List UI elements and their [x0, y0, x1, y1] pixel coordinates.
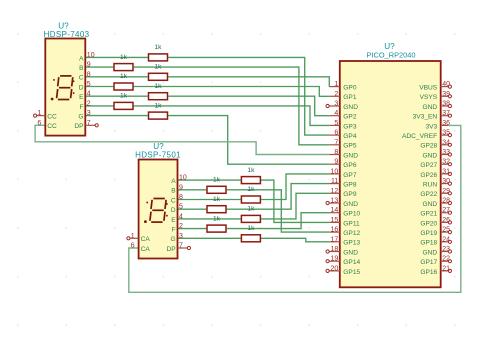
- svg-text:DP: DP: [74, 123, 84, 130]
- wire display1 E pin to resistor: [85, 95, 148, 97]
- svg-text:CA: CA: [141, 246, 151, 253]
- svg-text:GP6: GP6: [343, 162, 357, 169]
- svg-text:GP10: GP10: [343, 211, 360, 218]
- Pico pin 12 GP9 stub: [329, 192, 340, 194]
- wire display1 G resistor to Pico GP pin 9: [168, 116, 329, 165]
- svg-text:18: 18: [331, 246, 339, 253]
- Pico pin 1 GP0 stub: [329, 86, 340, 88]
- no-connect circle Pico pin 24: [448, 240, 451, 243]
- svg-text:1k: 1k: [120, 93, 128, 100]
- svg-text:40: 40: [442, 81, 450, 88]
- svg-text:ADC_VREF: ADC_VREF: [402, 133, 437, 140]
- svg-text:HDSP-7403: HDSP-7403: [44, 30, 90, 39]
- Pico pin 30 RUN stub unconnected: [441, 183, 449, 185]
- svg-text:10: 10: [87, 52, 95, 59]
- svg-text:10: 10: [179, 175, 187, 182]
- svg-text:8: 8: [334, 149, 338, 156]
- svg-text:39: 39: [442, 91, 450, 98]
- no-connect circle Pico pin 3: [326, 104, 329, 107]
- svg-text:6: 6: [334, 130, 338, 137]
- no-connect circle Pico pin 13: [326, 201, 329, 204]
- svg-text:1k: 1k: [247, 167, 255, 174]
- Pico pin 23 GND stub unconnected: [441, 251, 449, 253]
- resistor 1k (display1 segment G): [149, 112, 168, 119]
- svg-text:26: 26: [442, 217, 450, 224]
- svg-text:GND: GND: [343, 104, 358, 111]
- wire display1 B resistor to Pico GP pin 7: [134, 67, 330, 145]
- 7-segment digit graphic HDSP-7501: [150, 199, 166, 223]
- Pico pin 10 GP7 stub: [329, 173, 340, 175]
- svg-text:1k: 1k: [247, 186, 255, 193]
- svg-text:GP17: GP17: [420, 259, 437, 266]
- svg-text:24: 24: [442, 236, 450, 243]
- svg-text:GND: GND: [423, 201, 438, 208]
- Pico pin 24 GP18 stub unconnected: [441, 241, 449, 243]
- svg-text:2: 2: [334, 91, 338, 98]
- svg-text:12: 12: [331, 188, 339, 195]
- Pico pin 15 GP11 stub: [329, 221, 340, 223]
- svg-text:GND: GND: [343, 201, 358, 208]
- svg-text:GND: GND: [423, 249, 438, 256]
- svg-text:36: 36: [442, 120, 450, 127]
- Pico pin 29 GP22 stub unconnected: [441, 192, 449, 194]
- svg-text:F: F: [172, 227, 176, 234]
- svg-text:17: 17: [331, 236, 339, 243]
- wire display1 D resistor to Pico GP pin 2: [134, 87, 330, 97]
- svg-text:1: 1: [131, 233, 135, 240]
- Pico pin 16 GP12 stub: [329, 231, 340, 233]
- wire display2 E pin to resistor: [178, 218, 241, 220]
- no-connect circle Pico pin 20: [326, 269, 329, 272]
- Pico pin 20 GP15 stub unconnected: [329, 270, 340, 272]
- svg-text:10: 10: [331, 168, 339, 175]
- wire display2 G resistor to Pico GP pin 17: [261, 238, 329, 242]
- Pico pin 34 GP28 stub unconnected: [441, 144, 449, 146]
- no-connect circle Pico pin 30: [448, 182, 451, 185]
- svg-text:GND: GND: [423, 104, 438, 111]
- svg-text:B: B: [171, 188, 176, 195]
- svg-text:8: 8: [87, 71, 91, 78]
- svg-text:C: C: [79, 75, 84, 82]
- no-connect circle Pico pin 34: [448, 143, 451, 146]
- wire display2 C resistor to Pico GP pin 10: [261, 174, 329, 200]
- svg-text:C: C: [171, 197, 176, 204]
- no-connect circle pin 7 U? (display 2): [187, 246, 190, 249]
- svg-text:GP18: GP18: [420, 240, 437, 247]
- wire GND net: display1 CC to Pico pin 8 GND: [35, 125, 329, 154]
- no-connect circle Pico pin 28: [448, 201, 451, 204]
- pin DP (7) U? (display 1) unconnected: [85, 124, 95, 126]
- Pico pin 21 GP16 stub unconnected: [441, 270, 449, 272]
- svg-text:GP27: GP27: [420, 162, 437, 169]
- resistor 1k (display2 segment D): [207, 206, 226, 213]
- svg-text:GP19: GP19: [420, 230, 437, 237]
- svg-text:GP15: GP15: [343, 269, 360, 276]
- svg-text:5: 5: [179, 204, 183, 211]
- svg-text:1k: 1k: [155, 102, 163, 109]
- svg-text:GND: GND: [423, 152, 438, 159]
- wire display1 C resistor to Pico GP pin 1: [168, 77, 329, 87]
- no-connect circle Pico pin 31: [448, 172, 451, 175]
- display body U? (display 1) HDSP-7403: [45, 39, 85, 136]
- wire display2 C pin to resistor: [178, 199, 241, 201]
- no-connect circle pin 1 U? (display 2): [127, 237, 130, 240]
- svg-text:GP0: GP0: [343, 85, 357, 92]
- svg-text:34: 34: [442, 139, 450, 146]
- svg-text:B: B: [79, 65, 84, 72]
- svg-text:4: 4: [179, 213, 183, 220]
- microcontroller U? PICO_RP2040 body: [340, 61, 441, 287]
- Pico pin 35 ADC_VREF stub unconnected: [441, 134, 449, 136]
- svg-text:5: 5: [87, 81, 91, 88]
- svg-text:1: 1: [334, 81, 338, 88]
- pin DP (7) U? (display 2) unconnected: [178, 247, 188, 249]
- no-connect circle Pico pin 27: [448, 211, 451, 214]
- Pico pin 14 GP10 stub: [329, 212, 340, 214]
- svg-text:VSYS: VSYS: [420, 94, 438, 101]
- svg-text:G: G: [171, 236, 176, 243]
- svg-text:1k: 1k: [247, 225, 255, 232]
- Pico pin 37 3V3_EN stub unconnected: [441, 115, 449, 117]
- svg-text:9: 9: [334, 159, 338, 166]
- Pico pin 4 GP2 stub: [329, 115, 340, 117]
- svg-text:30: 30: [442, 178, 450, 185]
- Pico pin 25 GP19 stub unconnected: [441, 231, 449, 233]
- resistor 1k (display2 segment A): [241, 177, 260, 184]
- no-connect circle Pico pin 23: [448, 250, 451, 253]
- svg-text:PICO_RP2040: PICO_RP2040: [367, 50, 416, 59]
- wire display1 D pin to resistor: [85, 86, 113, 88]
- svg-text:1k: 1k: [213, 215, 221, 222]
- resistor 1k (display1 segment F): [114, 102, 133, 109]
- svg-text:A: A: [171, 178, 176, 185]
- svg-text:28: 28: [442, 198, 450, 205]
- svg-text:2: 2: [87, 100, 91, 107]
- no-connect circle Pico pin 29: [448, 192, 451, 195]
- resistor 1k (display2 segment C): [241, 196, 260, 203]
- wire display1 G pin to resistor: [85, 115, 148, 117]
- Pico pin 7 GP5 stub: [329, 144, 340, 146]
- svg-text:11: 11: [331, 178, 338, 185]
- no-connect circle Pico pin 40: [448, 85, 451, 88]
- svg-text:D: D: [79, 84, 84, 91]
- svg-text:GND: GND: [343, 152, 358, 159]
- Pico pin 33 GND stub unconnected: [441, 154, 449, 156]
- no-connect circle pin 1 U? (display 1): [34, 114, 37, 117]
- pin 1 CC U? (display 1) unconnected: [37, 115, 46, 117]
- svg-text:19: 19: [331, 256, 339, 263]
- svg-text:15: 15: [331, 217, 339, 224]
- svg-text:7: 7: [334, 139, 338, 146]
- Pico pin 39 VSYS stub unconnected: [441, 95, 449, 97]
- resistor 1k (display1 segment E): [149, 93, 168, 100]
- no-connect circle Pico pin 37: [448, 114, 451, 117]
- wire display1 B pin to resistor: [85, 66, 113, 68]
- svg-text:3: 3: [334, 101, 338, 108]
- no-connect circle Pico pin 19: [326, 260, 329, 263]
- svg-text:GP4: GP4: [343, 133, 357, 140]
- svg-text:1k: 1k: [155, 64, 163, 71]
- svg-text:25: 25: [442, 227, 450, 234]
- svg-text:GP26: GP26: [420, 172, 437, 179]
- wire display2 A resistor to Pico GP pin 15: [261, 180, 329, 222]
- svg-text:1k: 1k: [120, 54, 128, 61]
- svg-text:GP21: GP21: [420, 211, 437, 218]
- svg-text:1k: 1k: [247, 206, 255, 213]
- svg-text:DP: DP: [167, 246, 177, 253]
- no-connect circle Pico pin 35: [448, 134, 451, 137]
- Pico pin 19 GP14 stub unconnected: [329, 260, 340, 262]
- Pico pin 31 GP26 stub unconnected: [441, 173, 449, 175]
- resistor 1k (display1 segment D): [114, 83, 133, 90]
- wire display2 B resistor to Pico GP pin 16: [227, 190, 330, 232]
- svg-text:38: 38: [442, 101, 450, 108]
- resistor 1k (display1 segment A): [149, 54, 168, 61]
- wire display2 G pin to resistor: [178, 237, 241, 239]
- svg-text:GP20: GP20: [420, 220, 437, 227]
- svg-text:E: E: [79, 94, 84, 101]
- svg-text:F: F: [79, 104, 83, 111]
- wire display2 D pin to resistor: [178, 208, 207, 210]
- svg-text:HDSP-7501: HDSP-7501: [135, 151, 181, 160]
- svg-text:GP16: GP16: [420, 269, 437, 276]
- svg-text:A: A: [79, 55, 84, 62]
- wire display2 F pin to resistor: [178, 228, 207, 230]
- svg-text:14: 14: [331, 207, 339, 214]
- resistor 1k (display1 segment B): [114, 64, 133, 71]
- no-connect circle Pico pin 26: [448, 221, 451, 224]
- Pico pin 27 GP21 stub unconnected: [441, 212, 449, 214]
- svg-text:D: D: [171, 207, 176, 214]
- wire 3V3 net: display2 CA to Pico pin 36 3V3: [129, 125, 461, 292]
- svg-text:GP1: GP1: [343, 94, 357, 101]
- wire display2 A pin to resistor: [178, 179, 241, 181]
- Pico pin 22 GP17 stub unconnected: [441, 260, 449, 262]
- svg-text:8: 8: [179, 194, 183, 201]
- resistor 1k (display2 segment B): [207, 186, 226, 193]
- svg-text:20: 20: [331, 265, 339, 272]
- Pico pin 13 GND stub unconnected: [329, 202, 340, 204]
- wire display1 A resistor to Pico GP pin 6: [168, 57, 329, 135]
- resistor 1k (display2 segment F): [207, 225, 226, 232]
- svg-text:GP13: GP13: [343, 240, 360, 247]
- svg-text:6: 6: [131, 243, 135, 250]
- Pico pin 3 GND stub unconnected: [329, 105, 340, 107]
- Pico pin 36 3V3 stub (3V3 connected): [441, 124, 449, 126]
- svg-text:GP3: GP3: [343, 123, 357, 130]
- svg-text:GND: GND: [343, 249, 358, 256]
- no-connect circle Pico pin 38: [448, 104, 451, 107]
- svg-text:9: 9: [87, 62, 91, 69]
- wire display1 C pin to resistor: [85, 76, 148, 78]
- svg-text:4: 4: [87, 91, 91, 98]
- svg-text:1k: 1k: [213, 177, 221, 184]
- no-connect circle Pico pin 18: [326, 250, 329, 253]
- svg-text:35: 35: [442, 130, 450, 137]
- svg-text:16: 16: [331, 227, 339, 234]
- svg-text:37: 37: [442, 110, 450, 117]
- wire display2 F resistor to Pico GP pin 14: [227, 213, 330, 229]
- Pico pin 40 VBUS stub unconnected: [441, 86, 449, 88]
- svg-text:1k: 1k: [155, 83, 163, 90]
- no-connect circle Pico pin 33: [448, 153, 451, 156]
- resistor 1k (display1 segment C): [149, 73, 168, 80]
- svg-text:CC: CC: [47, 123, 57, 130]
- wire display1 F resistor to Pico GP pin 5: [134, 106, 330, 126]
- svg-text:1k: 1k: [213, 196, 221, 203]
- svg-text:3V3_EN: 3V3_EN: [413, 114, 438, 121]
- Pico pin 2 GP1 stub: [329, 95, 340, 97]
- svg-text:VBUS: VBUS: [419, 85, 438, 92]
- svg-text:3: 3: [179, 233, 183, 240]
- svg-text:1k: 1k: [155, 44, 163, 51]
- Pico pin 17 GP13 stub: [329, 241, 340, 243]
- Pico pin 38 GND stub unconnected: [441, 105, 449, 107]
- svg-text:GP22: GP22: [420, 191, 437, 198]
- resistor 1k (display2 segment G): [241, 235, 260, 242]
- wire display2 D resistor to Pico GP pin 11: [227, 184, 330, 210]
- svg-text:29: 29: [442, 188, 450, 195]
- svg-text:23: 23: [442, 246, 450, 253]
- Pico pin 8 GND stub: [329, 154, 340, 156]
- svg-text:CC: CC: [47, 114, 57, 121]
- wire display1 F pin to resistor: [85, 105, 113, 107]
- svg-text:27: 27: [442, 207, 450, 214]
- svg-text:2: 2: [179, 223, 183, 230]
- Pico pin 6 GP4 stub: [329, 134, 340, 136]
- pin 1 CA U? (display 2) unconnected: [130, 237, 139, 239]
- svg-text:31: 31: [442, 168, 450, 175]
- Pico pin 5 GP3 stub: [329, 124, 340, 126]
- svg-text:32: 32: [442, 159, 450, 166]
- svg-text:GP28: GP28: [420, 143, 437, 150]
- svg-text:GP12: GP12: [343, 230, 360, 237]
- svg-text:GP9: GP9: [343, 191, 357, 198]
- no-connect circle Pico pin 25: [448, 231, 451, 234]
- no-connect circle Pico pin 22: [448, 260, 451, 263]
- svg-text:6: 6: [37, 120, 41, 127]
- svg-text:21: 21: [442, 265, 450, 272]
- wire display1 A pin to resistor: [85, 56, 148, 58]
- no-connect circle Pico pin 39: [448, 95, 451, 98]
- wire display2 B pin to resistor: [178, 189, 207, 191]
- svg-text:G: G: [78, 114, 83, 121]
- svg-text:13: 13: [331, 198, 339, 205]
- wire display2 E resistor to Pico GP pin 12: [261, 193, 329, 219]
- svg-text:1k: 1k: [120, 73, 128, 80]
- svg-text:1: 1: [37, 110, 41, 117]
- wire display1 E resistor to Pico GP pin 4: [168, 96, 329, 116]
- svg-text:GP5: GP5: [343, 143, 357, 150]
- svg-text:9: 9: [179, 184, 183, 191]
- svg-text:GP11: GP11: [343, 220, 360, 227]
- svg-text:GP2: GP2: [343, 114, 357, 121]
- svg-text:3: 3: [87, 110, 91, 117]
- Pico pin 28 GND stub unconnected: [441, 202, 449, 204]
- Pico pin 18 GND stub unconnected: [329, 251, 340, 253]
- svg-text:7: 7: [179, 243, 183, 250]
- Pico pin 9 GP6 stub: [329, 163, 340, 165]
- svg-text:7: 7: [87, 120, 91, 127]
- 7-segment digit graphic HDSP-7403: [57, 76, 73, 100]
- Pico pin 26 GP20 stub unconnected: [441, 221, 449, 223]
- svg-text:RUN: RUN: [423, 182, 438, 189]
- svg-text:33: 33: [442, 149, 450, 156]
- no-connect circle Pico pin 32: [448, 163, 451, 166]
- svg-text:4: 4: [334, 110, 338, 117]
- no-connect circle Pico pin 21: [448, 269, 451, 272]
- resistor 1k (display2 segment E): [241, 215, 260, 222]
- Pico pin 11 GP8 stub: [329, 183, 340, 185]
- no-connect circle pin 7 U? (display 1): [95, 124, 98, 127]
- svg-text:3V3: 3V3: [425, 123, 437, 130]
- svg-text:5: 5: [334, 120, 338, 127]
- Pico pin 32 GP27 stub unconnected: [441, 163, 449, 165]
- svg-text:GP7: GP7: [343, 172, 357, 179]
- svg-text:GP14: GP14: [343, 259, 360, 266]
- display body U? (display 2) HDSP-7501: [139, 160, 178, 259]
- svg-text:CA: CA: [141, 236, 151, 243]
- svg-text:E: E: [171, 217, 176, 224]
- svg-text:GP8: GP8: [343, 182, 357, 189]
- svg-text:22: 22: [442, 256, 450, 263]
